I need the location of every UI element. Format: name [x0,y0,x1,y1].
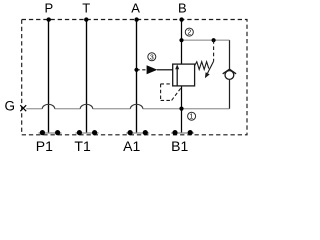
port label T [82,1,90,16]
wire pilot triangle to valve body [157,69,173,71]
pin number 3 (circled) [148,53,156,62]
wire check valve to bottom branch (dark vertical) [229,79,231,108]
pilot pressure triangle [147,65,158,74]
port symbol P1 (mounting face connection) [39,130,62,135]
svg-text:3: 3 [150,54,154,61]
wire B junction to pilot/check branch (gray, y=40) [182,39,230,41]
svg-text:A1: A1 [123,138,140,154]
node T (junction dot on boundary) [84,17,88,21]
relief valve V1 adjustment arrow with pilot drop (dashed) [205,40,214,78]
port label A [131,1,140,16]
svg-text:T1: T1 [74,138,91,154]
node B (junction dot on boundary) [179,17,183,21]
svg-text:P: P [44,1,53,16]
port symbol A1 (mounting face connection) [126,130,149,135]
port label B [178,1,187,16]
G port closed marker (x) [20,105,26,111]
pin number 1 (circled) [188,112,196,121]
svg-text:B1: B1 [171,138,188,154]
svg-text:2: 2 [187,30,191,37]
relief valve V1 spring [195,62,209,70]
junction dot at pilot drop [212,38,216,42]
port label A1 [123,138,140,154]
junction dot B1-line / G-line [179,107,183,111]
wire T to T1 [86,20,88,133]
port label T1 [74,138,91,154]
wire branch to check valve (dark vertical) [229,40,231,69]
svg-text:1: 1 [189,114,193,121]
wire A to A1 [136,20,138,133]
svg-text:P1: P1 [36,138,53,154]
port label P [44,1,53,16]
node P (junction dot on boundary) [47,17,51,21]
port symbol B1 (mounting face connection) [171,130,194,135]
manifold block boundary (dashed enclosure) [22,20,247,135]
port symbol T1 (mounting face connection) [76,130,99,135]
wire junction node to check valve bottom (gray) [182,108,230,110]
node A (junction dot on boundary) [134,17,138,21]
pilot line from node A (dashed) [137,69,148,71]
port label P1 [36,138,53,154]
pin number 2 (circled) [185,28,193,37]
wire G line (gray, with crossover humps at P, T, A) [26,104,181,108]
check valve CV1 (ball and seat) [223,69,236,79]
junction dot on A line (pilot tap) [134,68,138,72]
port label G [4,98,15,113]
valve V1 internal drain loop (dashed) [161,84,182,101]
port label B1 [171,138,188,154]
svg-text:B: B [178,1,187,16]
svg-text:T: T [82,1,90,16]
wire P to P1 [48,20,50,133]
wire valve V1 bottom to B1 [181,86,183,133]
relief valve V1 body [173,64,195,86]
relief valve V1 flow arrow [175,64,179,85]
junction dot on B line at branch [179,38,183,42]
wire B to valve V1 top [181,20,183,65]
svg-text:G: G [4,98,15,113]
svg-text:A: A [131,1,140,16]
